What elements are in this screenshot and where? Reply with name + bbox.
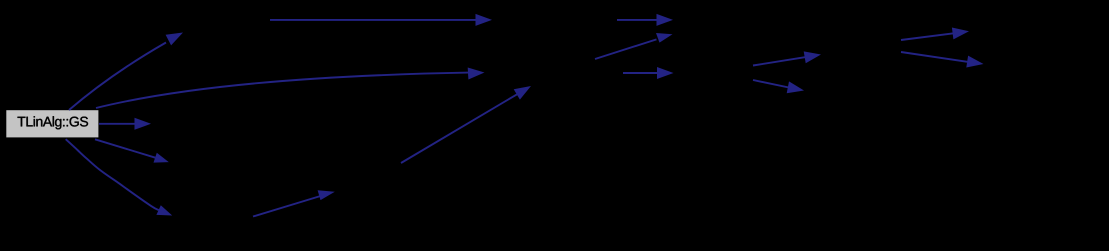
arrowhead E7 bbox=[318, 190, 335, 200]
arrowhead E4 bbox=[135, 118, 152, 130]
edge E10: node7 -> node8 (diagonal up-right) bbox=[595, 39, 657, 59]
edge E11: node7 -> node9 (short horizontal) bbox=[623, 72, 658, 74]
arrowhead E8 bbox=[514, 86, 531, 100]
arrowhead E13 bbox=[787, 81, 804, 93]
arrowhead E15 bbox=[966, 56, 983, 68]
edge E3: TLinAlg::GS -> node2 (long flat curve) bbox=[96, 73, 469, 108]
edge E14: node10 -> node12 (diagonal up-right far right) bbox=[901, 33, 954, 40]
edge E13: node9 -> node11 (diagonal down-right) bbox=[753, 80, 789, 88]
arrowhead E11 bbox=[657, 67, 674, 79]
edge E9: node2 -> node8 (short horizontal top right) bbox=[617, 19, 658, 21]
arrowhead E3 bbox=[468, 68, 485, 80]
arrowhead E1 bbox=[166, 33, 183, 46]
edge E5: TLinAlg::GS -> node4 (diagonal down-right) bbox=[95, 139, 155, 157]
edge E15: node10 -> node13 (diagonal down-right far right) bbox=[901, 52, 968, 62]
arrowhead E14 bbox=[952, 28, 969, 40]
arrowhead E10 bbox=[656, 33, 673, 43]
edge E1: TLinAlg::GS -> node1 (curved up-right) bbox=[69, 43, 166, 111]
arrowhead E12 bbox=[804, 51, 821, 63]
edge E4: TLinAlg::GS -> node3 (short horizontal) bbox=[99, 123, 136, 125]
arrowhead E2 bbox=[476, 14, 493, 26]
edge E7: node5 -> node6 (diagonal up-right bottom) bbox=[253, 196, 320, 216]
node TLinAlg::GS (grey highlighted node) bbox=[6, 110, 98, 137]
label TLinAlg::GS bbox=[18, 116, 89, 129]
edge E12: node9 -> node10 (diagonal up-right) bbox=[753, 57, 806, 65]
edge E6: TLinAlg::GS -> node5 (curved down-right) bbox=[66, 139, 159, 210]
edge E2: node1 -> node2 (horizontal top) bbox=[270, 19, 476, 21]
arrowhead E5 bbox=[154, 153, 169, 163]
arrowhead E9 bbox=[657, 14, 674, 26]
edge E8: node6 -> node7 (diagonal up-right middle) bbox=[401, 94, 518, 163]
arrowhead E6 bbox=[156, 205, 172, 215]
